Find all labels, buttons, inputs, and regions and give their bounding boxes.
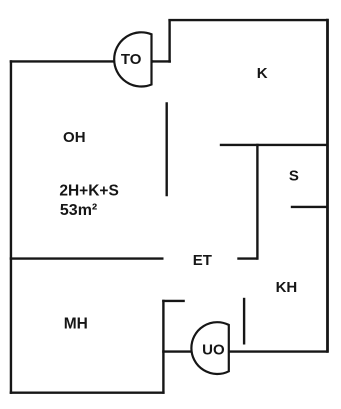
wall left outer bbox=[10, 62, 12, 393]
svg-text:K: K bbox=[257, 65, 268, 82]
svg-text:2H+K+S: 2H+K+S bbox=[59, 182, 118, 199]
wall OH MH divider bbox=[11, 257, 162, 259]
wall KH left bbox=[243, 299, 245, 343]
wall notch horizontal bbox=[163, 300, 183, 302]
wall OH top bbox=[11, 60, 152, 62]
wall MH right bbox=[162, 301, 164, 393]
wall MH bottom bbox=[11, 392, 164, 394]
wire TO stub bbox=[152, 60, 170, 62]
svg-text:OH: OH bbox=[63, 129, 86, 146]
wall K bottom bbox=[221, 144, 327, 146]
svg-text:ET: ET bbox=[193, 252, 212, 269]
svg-text:53m²: 53m² bbox=[60, 202, 97, 219]
wall S bottom bbox=[292, 206, 327, 208]
door UO bbox=[191, 322, 228, 374]
wall top outer bbox=[170, 19, 327, 21]
svg-text:UO: UO bbox=[202, 341, 225, 358]
door TO bbox=[114, 32, 151, 86]
svg-text:MH: MH bbox=[64, 316, 88, 333]
wall right outer bbox=[326, 20, 329, 351]
svg-text:S: S bbox=[289, 168, 299, 185]
wall S left bbox=[256, 145, 258, 259]
wall K left vertical bbox=[168, 20, 170, 61]
svg-text:TO: TO bbox=[121, 51, 142, 68]
wall ET stub bbox=[239, 257, 257, 259]
svg-text:KH: KH bbox=[276, 279, 298, 296]
wall hall bottom bbox=[163, 350, 326, 352]
wall OH right bbox=[165, 103, 167, 195]
